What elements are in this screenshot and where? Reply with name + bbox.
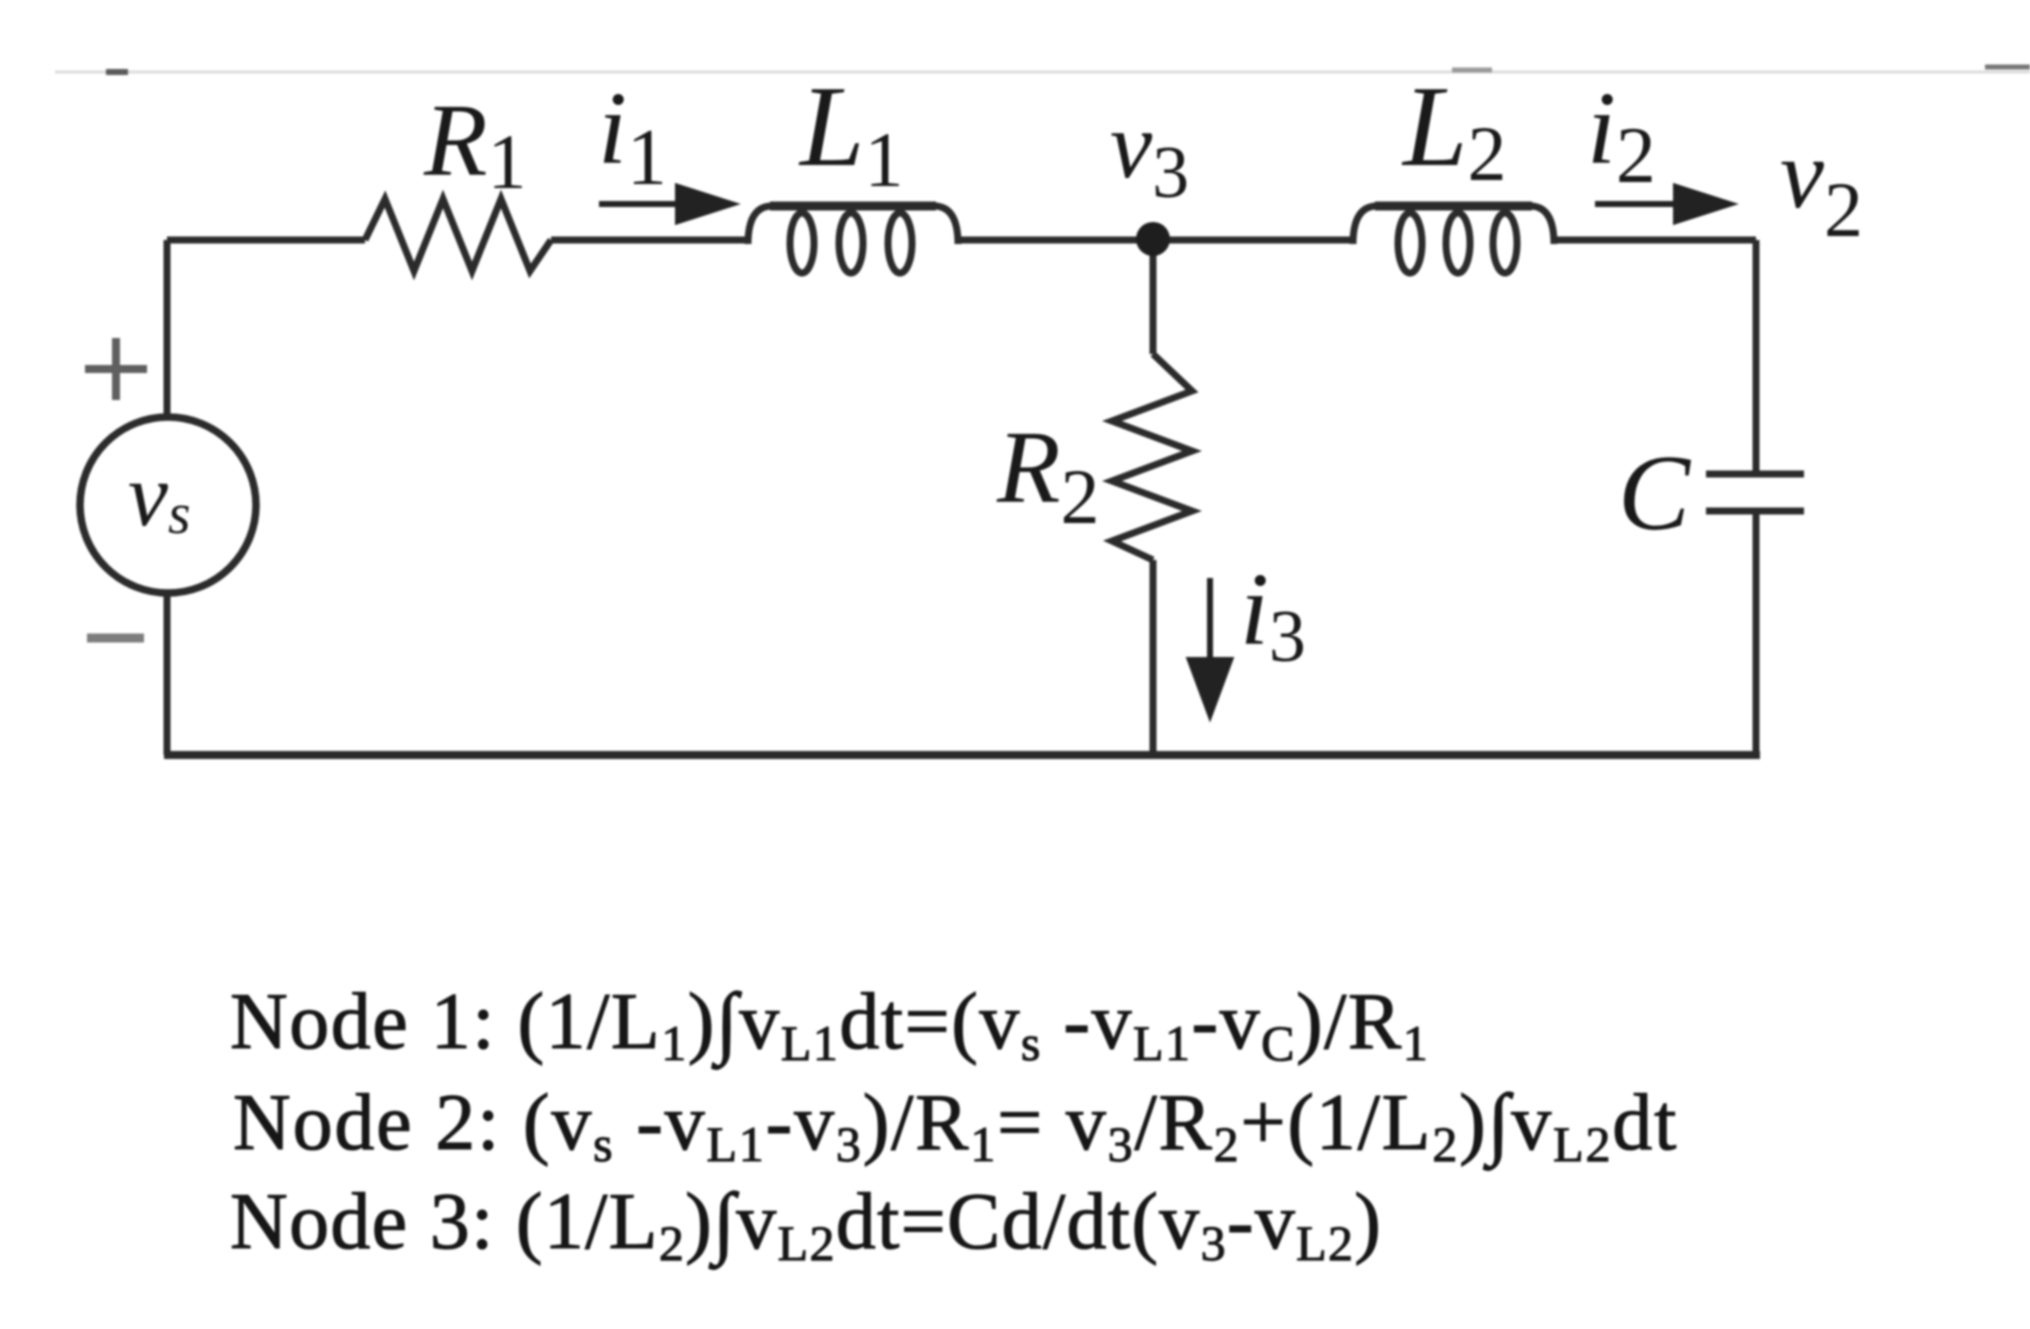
- svg-text:i2: i2: [1587, 71, 1656, 200]
- svg-text:i1: i1: [598, 71, 667, 202]
- svg-text:v3: v3: [1110, 92, 1189, 214]
- svg-text:Node 2: (vs -vL1-v3)/R1= v3/R2: Node 2: (vs -vL1-v3)/R1= v3/R2+(1/L2)∫vL…: [233, 1079, 1678, 1172]
- svg-text:R1: R1: [423, 83, 527, 205]
- svg-text:i3: i3: [1240, 552, 1306, 678]
- svg-text:v2: v2: [1780, 120, 1863, 253]
- svg-text:Node 1: (1/L1)∫vL1dt=(vs -vL1: Node 1: (1/L1)∫vL1dt=(vs -vL1-vC)/R1: [230, 978, 1429, 1071]
- svg-text:L2: L2: [1401, 63, 1507, 197]
- svg-text:R2: R2: [996, 410, 1100, 540]
- svg-text:C: C: [1618, 434, 1692, 553]
- svg-text:Node 3: (1/L2)∫vL2dt=Cd/dt(v3-: Node 3: (1/L2)∫vL2dt=Cd/dt(v3-vL2): [230, 1178, 1382, 1271]
- svg-text:L1: L1: [798, 63, 904, 203]
- svg-text:vs: vs: [128, 446, 191, 546]
